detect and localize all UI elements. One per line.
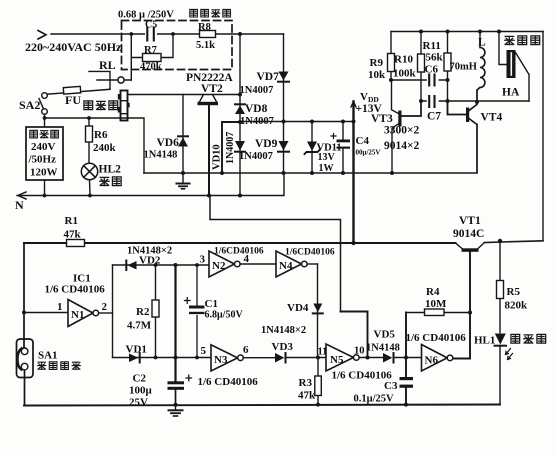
svg-text:9014×2: 9014×2 <box>384 140 420 152</box>
label jidianqi (relay) <box>84 101 118 110</box>
svg-text:1/6 CD40106: 1/6 CD40106 <box>45 284 106 296</box>
AC input arrow <box>38 31 46 40</box>
resistor R7 <box>143 54 162 62</box>
svg-text:240V: 240V <box>31 141 56 153</box>
wire VD8 column <box>239 34 241 196</box>
heater label fareqi <box>30 130 59 138</box>
svg-text:VD8: VD8 <box>245 103 268 115</box>
label shuiyin kaiguan (mercury switch) <box>38 362 81 370</box>
svg-text:4.7M: 4.7M <box>127 320 152 332</box>
resistor R5 <box>497 241 504 333</box>
svg-text:56k: 56k <box>426 52 444 64</box>
diode VD9 <box>278 141 289 152</box>
diode VD3 <box>275 353 286 363</box>
svg-text:240k: 240k <box>93 142 117 154</box>
svg-text:R2: R2 <box>136 306 150 318</box>
svg-text:1/6 CD40106: 1/6 CD40106 <box>406 332 467 344</box>
svg-text:10M: 10M <box>425 298 447 310</box>
wire oscillator bottom row y=357.5 <box>113 357 212 359</box>
ground (C2) <box>169 405 183 416</box>
wire VD5 to N6 <box>394 357 422 359</box>
svg-text:VD9: VD9 <box>255 138 278 150</box>
svg-text:R8: R8 <box>198 22 211 33</box>
diode VD5 <box>383 353 394 363</box>
inverter N3 <box>211 345 275 371</box>
transistor VT4 <box>448 101 478 173</box>
svg-text:2: 2 <box>102 301 108 313</box>
capacitor C4 <box>331 122 350 174</box>
svg-text:C4: C4 <box>356 135 370 147</box>
svg-text:100k: 100k <box>393 68 417 80</box>
svg-text:VD10: VD10 <box>212 144 223 170</box>
svg-text:0.1μ/25V: 0.1μ/25V <box>354 394 394 405</box>
svg-text:HL1: HL1 <box>474 335 495 347</box>
svg-text:N: N <box>15 198 24 212</box>
svg-text:N2: N2 <box>212 260 226 272</box>
wire SA2 to coil bottom <box>45 114 145 173</box>
capacitor C5 <box>145 28 157 41</box>
capacitor C2 <box>168 265 192 405</box>
buzzer HA <box>499 32 529 102</box>
svg-text:5.1k: 5.1k <box>196 40 215 51</box>
svg-text:VD1: VD1 <box>126 344 147 356</box>
svg-text:VD5: VD5 <box>374 329 396 341</box>
label 0.68u/250V <box>118 10 174 21</box>
svg-text:FU: FU <box>65 93 81 107</box>
svg-text:9014C: 9014C <box>453 228 484 240</box>
resistor R9 <box>388 32 395 81</box>
diode VD8 <box>235 104 245 114</box>
label 1N4007 rotated <box>225 132 236 164</box>
svg-text:VT2: VT2 <box>201 83 223 95</box>
resistor R2 <box>152 265 159 358</box>
svg-text:C3: C3 <box>384 380 398 392</box>
svg-text:13V: 13V <box>318 152 336 163</box>
svg-text:VT4: VT4 <box>481 112 503 124</box>
resistor R11 <box>444 32 451 115</box>
svg-text:C1: C1 <box>205 298 218 310</box>
inductor L 70mH <box>477 32 485 103</box>
capacitor C7 <box>421 96 529 108</box>
svg-text:1N4007: 1N4007 <box>239 151 273 162</box>
svg-text:100μ: 100μ <box>129 385 153 397</box>
svg-text:R4: R4 <box>426 286 440 298</box>
svg-text:25V: 25V <box>129 397 148 409</box>
step-down dashed box <box>122 21 233 70</box>
resistor R4 <box>406 309 470 316</box>
wire +13V rail y=121.5 <box>240 121 354 123</box>
relay coil <box>118 91 130 121</box>
diode VD7 <box>278 72 289 82</box>
svg-text:R7: R7 <box>144 45 157 56</box>
svg-text:/50Hz: /50Hz <box>28 154 57 166</box>
AC input label <box>25 40 122 54</box>
heater box <box>26 127 63 180</box>
N rail <box>17 173 284 199</box>
svg-text:1N4148×2: 1N4148×2 <box>261 325 306 336</box>
svg-text:C6: C6 <box>425 64 439 76</box>
wire left column to SA1 <box>23 243 26 406</box>
svg-text:SA1: SA1 <box>38 350 58 362</box>
inverter N4 <box>276 251 318 277</box>
svg-text:R1: R1 <box>65 215 78 227</box>
VDD +13V supply line <box>351 102 356 244</box>
inverter N6 <box>422 345 453 372</box>
svg-text:47k: 47k <box>298 390 316 402</box>
mercury switch SA1 <box>17 339 34 378</box>
wire oscillator top row y=265 <box>113 264 210 266</box>
svg-text:1/6CD40106: 1/6CD40106 <box>285 248 335 258</box>
svg-text:VD6: VD6 <box>157 137 180 149</box>
svg-text:R10: R10 <box>394 54 413 66</box>
svg-text:RL: RL <box>99 58 116 72</box>
svg-text:N4: N4 <box>279 260 293 272</box>
diode VD2 <box>126 261 136 271</box>
wire feedback column x=112.5 <box>112 265 114 358</box>
svg-text:VT1: VT1 <box>459 215 481 227</box>
resistor R1 <box>67 240 85 247</box>
svg-text:C2: C2 <box>133 373 147 385</box>
svg-text:C5: C5 <box>145 20 157 31</box>
resistor R6 <box>86 118 93 163</box>
svg-text:10k: 10k <box>368 69 386 81</box>
wire N-to-N5out link path <box>210 196 368 358</box>
svg-text:N1: N1 <box>71 309 84 321</box>
diode VD1 <box>129 353 140 363</box>
fuse FU <box>47 86 110 94</box>
svg-text:3: 3 <box>200 254 206 266</box>
wire VD3 to N5 <box>286 357 327 359</box>
inverter N5 <box>326 344 383 371</box>
svg-text:1/6 CD40106: 1/6 CD40106 <box>198 376 259 388</box>
svg-text:R6: R6 <box>94 129 108 141</box>
label jiangya dianlu (step-down circuit) <box>190 9 231 17</box>
transistor VT2 <box>198 95 219 196</box>
svg-text:3300×2: 3300×2 <box>384 125 420 137</box>
svg-text:1: 1 <box>57 301 63 313</box>
wire heater bottom <box>44 180 46 196</box>
svg-text:VD4: VD4 <box>287 302 309 314</box>
label fengmingqi (buzzer) <box>505 36 540 45</box>
wire VDD feed line y=243 with R1 <box>24 242 456 244</box>
svg-text:10: 10 <box>354 346 365 357</box>
resistor R10 <box>418 32 425 102</box>
svg-text:VT3: VT3 <box>371 113 393 125</box>
zener VD11 <box>305 122 320 174</box>
right supply column (to VT1 collector) <box>542 32 544 241</box>
label zhishideng (indicator lamp) <box>511 334 546 343</box>
neon lamp HL2 <box>81 163 97 195</box>
svg-text:HA: HA <box>502 87 520 99</box>
label VD10 rotated <box>212 144 223 170</box>
svg-text:N3: N3 <box>214 354 228 366</box>
LED HL1 <box>495 334 513 405</box>
wire node verticals around R7 <box>131 34 173 80</box>
svg-text:R5: R5 <box>507 286 521 298</box>
oscillator top rail <box>391 31 543 33</box>
svg-text:6: 6 <box>243 344 249 356</box>
svg-text:5: 5 <box>201 345 207 357</box>
svg-text:VD2: VD2 <box>139 255 161 267</box>
wire live L line y=34 <box>51 33 284 35</box>
svg-text:1W: 1W <box>319 163 334 174</box>
svg-text:N5: N5 <box>330 354 344 366</box>
ground (VT2/VD6) <box>177 173 190 189</box>
svg-text:HL2: HL2 <box>99 164 122 176</box>
wire VD7 column <box>283 34 285 173</box>
svg-text:220~240VAC 50Hz: 220~240VAC 50Hz <box>25 40 122 54</box>
svg-text:VD7: VD7 <box>257 71 280 83</box>
svg-text:100μ/25V: 100μ/25V <box>352 149 380 157</box>
svg-text:47k: 47k <box>64 229 82 241</box>
capacitor C1 <box>185 265 205 358</box>
diode VD10 <box>235 141 245 152</box>
svg-text:6.8μ/50V: 6.8μ/50V <box>205 310 244 321</box>
diode VD6 <box>178 95 188 174</box>
bottom rail <box>24 405 500 406</box>
svg-text:1N4007: 1N4007 <box>225 132 236 164</box>
svg-text:1N4148: 1N4148 <box>366 343 400 354</box>
svg-text:1/6CD40106: 1/6CD40106 <box>214 247 264 257</box>
diode VD4 column <box>313 264 323 358</box>
svg-text:R11: R11 <box>423 40 441 52</box>
svg-text:VD3: VD3 <box>272 341 294 353</box>
capacitor C6 <box>391 74 448 86</box>
svg-text:R9: R9 <box>370 57 384 69</box>
svg-text:1N4007: 1N4007 <box>240 85 274 96</box>
svg-text:820k: 820k <box>505 300 529 312</box>
svg-text:70mH: 70mH <box>450 62 477 73</box>
label naideng (neon) <box>100 177 121 186</box>
svg-text:SA2: SA2 <box>19 98 40 112</box>
inverter N1 <box>24 300 113 327</box>
capacitor C3 <box>400 313 414 405</box>
transistor VT1 <box>453 241 543 359</box>
wire ground rail y=173 <box>144 172 477 174</box>
wire VD10 bypass stub <box>222 122 240 173</box>
svg-text:R3: R3 <box>299 377 313 389</box>
svg-text:470k: 470k <box>140 62 162 73</box>
resistor R3 <box>315 358 322 405</box>
relay contact RL <box>89 71 131 89</box>
switch SA2 <box>39 93 47 115</box>
inverter N2 <box>209 251 276 277</box>
resistor R8 <box>200 31 216 38</box>
wire coil top to VT2 <box>128 94 241 96</box>
transistor VT3 <box>392 80 422 173</box>
svg-text:1N4148: 1N4148 <box>144 150 178 161</box>
svg-text:C7: C7 <box>427 111 441 123</box>
svg-text:L: L <box>478 37 486 49</box>
svg-text:N6: N6 <box>425 355 439 367</box>
svg-text:120W: 120W <box>30 167 58 179</box>
